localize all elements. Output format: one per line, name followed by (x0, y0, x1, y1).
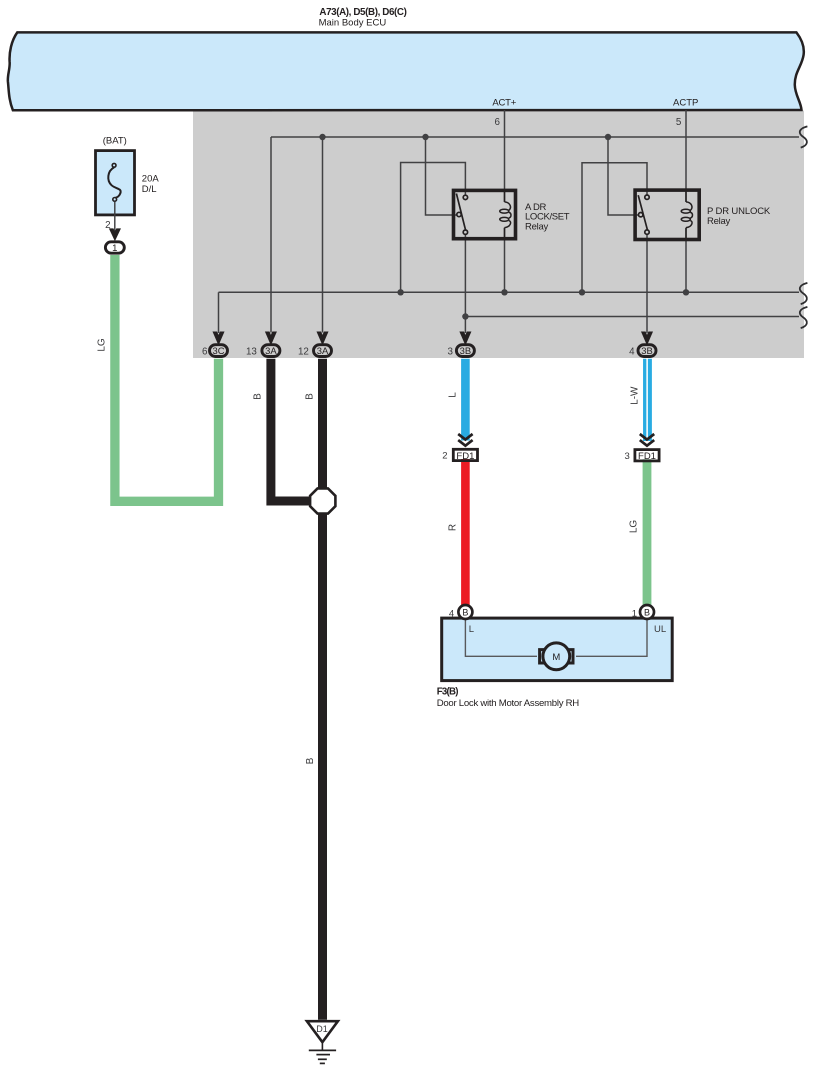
connector 3A pin 13 arrow (266, 332, 276, 343)
svg-text:UL: UL (654, 624, 666, 635)
wire ACTP vertical to relay coil U2 (685, 110, 687, 202)
contact top relay U1 (463, 195, 467, 199)
svg-text:B: B (644, 607, 650, 617)
wire pin12 vertical (322, 137, 324, 333)
connector 3B pin3 ellipse (456, 345, 474, 357)
svg-text:D1: D1 (316, 1024, 328, 1034)
node junction H2 x582 (579, 289, 585, 295)
wire H1 to relay1 common (426, 137, 458, 215)
svg-text:B: B (462, 607, 468, 617)
wire B black from 3A pin13 to splice (271, 359, 310, 501)
relay U2 P DR UNLOCK box (635, 190, 699, 239)
contact top relay U2 (645, 195, 649, 199)
connector B pin4 circle (458, 605, 472, 619)
wire relay1 switch output to connector 3B pin3 (464, 233, 466, 333)
wire L blue from 3B pin3 (461, 359, 470, 441)
fuse F 20A D/L box (96, 151, 135, 215)
svg-text:A73(A), D5(B), D6(C): A73(A), D5(B), D6(C) (319, 7, 406, 18)
wire inside motor box left (465, 620, 537, 656)
connector FD1 right border (635, 450, 659, 461)
contact bottom relay U2 (645, 230, 649, 234)
motor assembly box F3(B) (442, 618, 673, 681)
node junction H2 x504 (501, 289, 507, 295)
splice junction octagon (310, 488, 335, 513)
svg-text:2: 2 (442, 450, 447, 461)
connector 3B pin 4 arrow (642, 332, 652, 343)
svg-text:3A: 3A (317, 345, 329, 356)
wire break squiggle H2 (800, 283, 808, 304)
wire B black from 3A pin12 to splice (318, 359, 327, 489)
wire relay2 top contact to H2 (582, 163, 647, 293)
node junction H2 x686 (683, 289, 689, 295)
svg-text:D/L: D/L (142, 184, 157, 195)
contact mid relay U1 (457, 212, 461, 216)
motor brush left (540, 650, 545, 663)
wire relay2 switch output to connector 3B pin4 (646, 233, 648, 333)
wire bus H1 top horizontal (271, 136, 799, 138)
svg-text:Door Lock with Motor Assembly: Door Lock with Motor Assembly RH (437, 698, 580, 709)
svg-text:ACT+: ACT+ (492, 97, 516, 108)
wire LG green to motor (643, 459, 652, 606)
connector FD1 left white fill (453, 449, 477, 460)
ground bars (309, 1050, 336, 1063)
node junction H2 x400 (397, 289, 403, 295)
relay U1 A DR LOCK/SET box (454, 190, 516, 238)
connector FD1 right white fill (635, 450, 659, 461)
svg-text:Relay: Relay (707, 216, 731, 227)
svg-text:B: B (305, 757, 316, 764)
motor brush right (568, 650, 573, 663)
switch blade relay U2 (638, 195, 647, 230)
svg-text:B: B (253, 393, 264, 400)
connector 3A pin13 ellipse (262, 345, 280, 357)
connector 3A pin 12 arrow (318, 332, 328, 343)
wire H1 to relay2 common (608, 137, 639, 215)
svg-text:4: 4 (629, 347, 635, 358)
svg-text:4: 4 (449, 608, 454, 619)
wire LG green from fuse to 3C (115, 255, 219, 501)
wire fuse to connector 1 (114, 202, 116, 234)
switch blade relay U1 (456, 194, 465, 231)
svg-text:1: 1 (632, 608, 637, 619)
contact mid relay U2 (639, 213, 643, 217)
svg-text:3C: 3C (213, 345, 225, 356)
svg-text:3: 3 (625, 451, 630, 462)
svg-text:20A: 20A (142, 173, 160, 184)
wire H2 corner down to connector 3C pin6 (218, 292, 220, 333)
svg-text:6: 6 (202, 347, 208, 358)
wire B black from splice to ground D1 (318, 513, 327, 1020)
connector 3B pin 3 arrow (461, 332, 471, 343)
svg-text:B: B (305, 393, 316, 400)
wire ACT+ vertical to relay coil U1 (504, 110, 506, 202)
contact bottom relay U1 (463, 230, 467, 234)
node junction H1 x322 (319, 134, 325, 140)
wire L-W striped from 3B pin4 (643, 359, 646, 441)
svg-text:F3(B): F3(B) (437, 686, 459, 697)
inline connector chevrons right (640, 434, 654, 446)
connector 3B pin4 ellipse (638, 345, 656, 357)
connector 3A pin12 ellipse (314, 345, 332, 357)
svg-text:Relay: Relay (525, 221, 549, 232)
ECU band Main Body ECU (8, 32, 804, 110)
ECU internal shield box (193, 111, 804, 358)
svg-text:L: L (448, 392, 459, 398)
connector arrow above 1 (110, 229, 120, 239)
svg-text:ACTP: ACTP (673, 97, 698, 108)
svg-text:L: L (469, 624, 474, 635)
connector 3C pin 6 arrow (214, 332, 224, 343)
coil relay U1 (505, 202, 511, 211)
svg-text:3B: 3B (641, 345, 652, 356)
wire break squiggle H3 (800, 307, 808, 328)
coil relay U2 (686, 202, 692, 211)
svg-text:13: 13 (246, 347, 257, 358)
wire relay1 top contact to H2 (401, 163, 466, 293)
motor M circle (543, 643, 570, 670)
svg-text:LG: LG (97, 338, 108, 352)
wire bus H3 third horizontal (465, 316, 799, 318)
connector B pin1 circle (640, 605, 654, 619)
node junction H1 x425 (422, 134, 428, 140)
connector 1 ellipse (105, 242, 124, 253)
svg-text:L-W: L-W (630, 386, 641, 405)
wire relay2 coil to H2 (685, 228, 687, 292)
svg-text:FD1: FD1 (638, 451, 656, 462)
node junction H1 x608 (605, 134, 611, 140)
svg-text:5: 5 (676, 117, 682, 128)
wire bus H2 second horizontal (219, 291, 800, 293)
svg-text:3: 3 (447, 347, 453, 358)
wire break squiggle H1 (800, 126, 808, 147)
wire inside motor box right (576, 620, 647, 656)
svg-text:3A: 3A (265, 345, 277, 356)
wire relay1 coil to H2 (504, 228, 506, 292)
fuse element (108, 167, 120, 197)
wire pin13 vertical (270, 137, 272, 333)
svg-text:3B: 3B (460, 345, 471, 356)
svg-text:LG: LG (628, 520, 639, 534)
ground D1 triangle (307, 1021, 338, 1042)
svg-text:Main Body ECU: Main Body ECU (319, 18, 387, 29)
svg-text:6: 6 (495, 117, 501, 128)
wire R red to motor (461, 459, 470, 606)
svg-text:(BAT): (BAT) (103, 136, 127, 147)
svg-text:1: 1 (112, 243, 117, 254)
svg-text:FD1: FD1 (456, 451, 474, 462)
connector 3C ellipse (210, 345, 228, 357)
svg-text:12: 12 (298, 347, 309, 358)
svg-text:M: M (552, 652, 560, 663)
inline connector chevrons left (458, 434, 472, 446)
svg-text:R: R (448, 524, 459, 531)
ground stem (321, 1043, 323, 1050)
connector FD1 left border (453, 449, 477, 460)
node junction H3 x465 (462, 313, 468, 319)
